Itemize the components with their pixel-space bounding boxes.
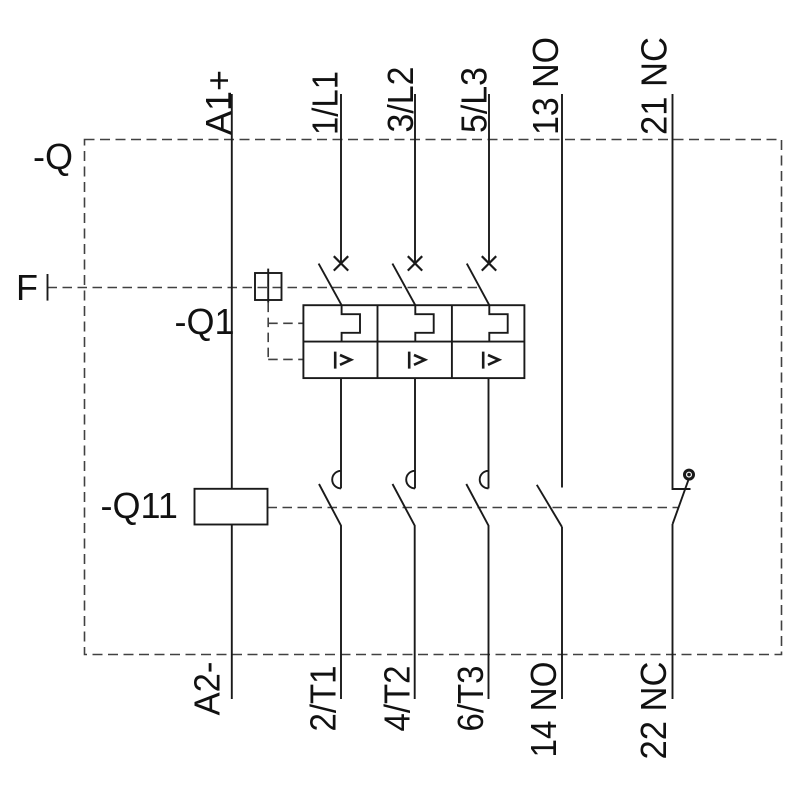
svg-text:13 NO: 13 NO [525, 37, 566, 135]
svg-text:22 NC: 22 NC [633, 662, 674, 760]
svg-text:-Q11: -Q11 [101, 485, 178, 526]
svg-text:-Q: -Q [33, 136, 73, 177]
svg-text:5/L3: 5/L3 [454, 67, 495, 133]
svg-text:4/T2: 4/T2 [377, 666, 418, 732]
svg-text:1/L1: 1/L1 [305, 71, 346, 135]
svg-text:14 NO: 14 NO [523, 662, 564, 758]
svg-text:2/T1: 2/T1 [303, 666, 344, 732]
svg-text:A2-: A2- [187, 662, 228, 716]
svg-text:21 NC: 21 NC [634, 37, 675, 135]
svg-text:-Q1: -Q1 [175, 301, 235, 342]
svg-text:A1+: A1+ [198, 70, 239, 135]
svg-text:F: F [16, 267, 38, 308]
svg-text:6/T3: 6/T3 [450, 666, 491, 732]
svg-text:3/L2: 3/L2 [380, 67, 421, 133]
